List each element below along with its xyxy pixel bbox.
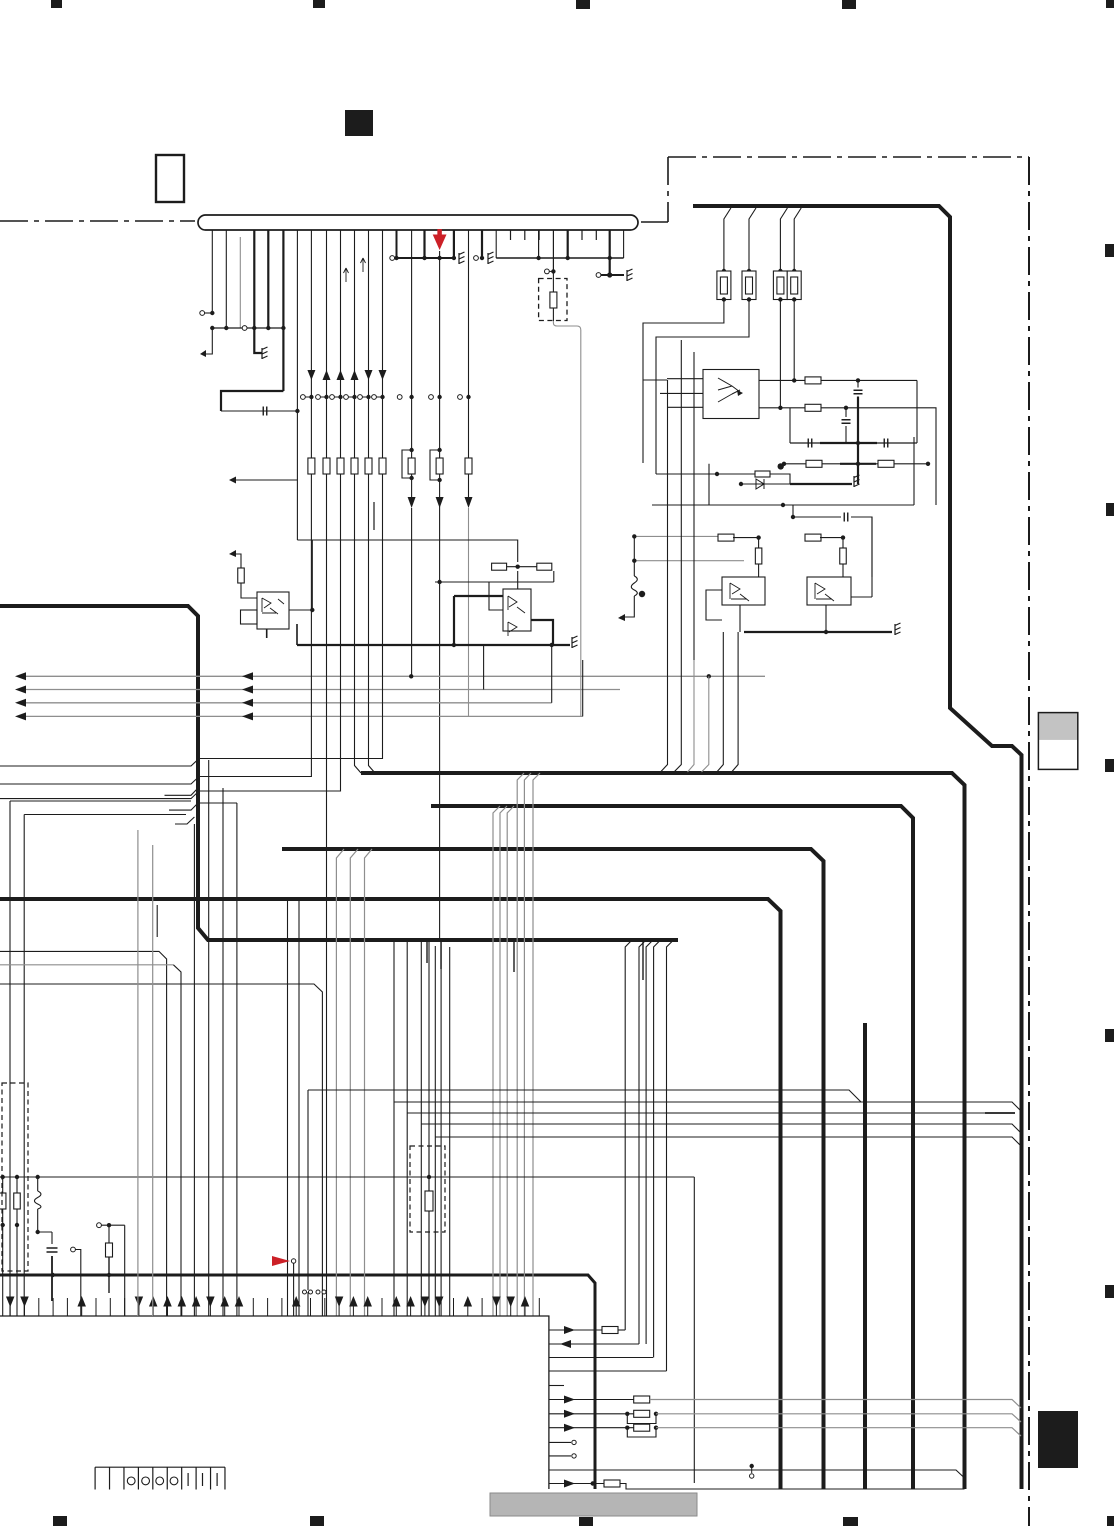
resistor box R1 [717,271,731,300]
arrow left end y716 [15,712,26,720]
wire coil stub [633,536,635,576]
resistor R x340 [337,458,344,474]
wire gray bus line y702 [26,702,552,704]
wire nested corner 2 [655,394,657,474]
wire pin x439 below arrow [439,251,441,582]
comb pin ticks [9,1298,11,1316]
thick bus C1 [361,773,965,1489]
wire rail y258 right [496,257,623,259]
wire line3 up [551,645,553,703]
wire tick left x368 [362,396,366,398]
wire thick L to Q2 [454,595,503,597]
row6 gray contd [650,1400,1021,1409]
junction gray line1 [409,674,413,678]
wire left feeder y984 [0,984,322,1316]
page boundary dash-dot right edge [1028,157,1030,1526]
wire pin bus to resistor (x340) [340,230,342,458]
row8 gray contd [656,1428,1021,1436]
wire pin 6 thick (x283) [282,230,284,391]
junction cap line [295,409,299,413]
resistor R7 [806,460,822,467]
junction x482 [480,256,484,260]
wire pin x496 [495,230,497,258]
thick bus D [863,1023,867,1489]
wire stair yB [394,1102,1021,1111]
wire cluster drop x667 [661,660,668,772]
Q1 internals [262,598,284,614]
row7 bracket [627,1414,656,1424]
wire R2 route [656,300,749,395]
wire U2 row1 [759,379,805,381]
wire stair x311 left [0,480,311,784]
wire x643 black stub [642,941,644,980]
wire elbow arrow bottom left cluster [620,602,634,617]
wire R18 down [16,1225,18,1316]
junction diode wire [739,482,743,486]
diode D1 [741,479,790,489]
wire R17 leads [2,1177,4,1193]
wire R4 route [793,300,795,381]
wire gray bus line y716 [26,715,583,717]
wire pin bus to resistor (x382) [382,230,384,458]
junction top R4 [792,269,796,273]
wire line2 up [483,645,485,690]
wire pin 1 (x212) [211,230,213,313]
wire elbow x80 [76,1250,81,1317]
registration mark bottom 4 [843,1517,858,1526]
junction pin14 [394,256,398,260]
wire stub y795 [165,788,199,795]
gray footer bar [490,1493,697,1516]
wire left elbow arrow from pin1 [201,328,212,354]
wire stub x553 circle [549,270,553,272]
row1 wire to riser [618,1329,625,1331]
wire R12 to Q4 [820,538,843,548]
capacitor C row2 [842,420,851,424]
resistor R x468 [465,458,472,474]
row12 step [620,1484,965,1490]
wire gray bus line y676 [26,675,765,677]
resistor R8 [878,460,894,467]
wire pin x624 [623,230,625,258]
row7 wire y1413 [549,1413,634,1415]
wire cluster drop x708 [702,676,709,772]
wire y517 cap [793,517,872,577]
wire x312 up to box top [311,540,313,610]
thick bus B left [0,606,678,940]
wire cluster drop x723 [717,632,724,772]
row3 wire y1357 [549,1357,653,1359]
row1 arrow [564,1326,575,1334]
junction y517 [791,515,795,519]
wire pin 2 (x226) [225,230,227,328]
wire left box 1 vert [9,801,11,1316]
wire drop x394 [393,940,395,1102]
small signal arrow up 2 [361,258,366,272]
junction L2 [36,1230,40,1234]
junction x424 [422,256,426,260]
white label box top left [156,155,184,202]
Q4 internals [815,583,834,601]
wire bracket x411 [402,450,412,478]
junction top R1 [722,269,726,273]
wire R14 down [241,583,257,598]
wire gray drop x507 [507,806,514,1316]
red flag [272,1256,290,1266]
wire Q3 left loop [706,590,722,620]
wire resistor down x368 [368,474,370,480]
wire x308 down [307,1090,309,1290]
opto box Q1 [257,592,289,629]
wire box right edge [913,437,915,505]
junction y505 [781,503,785,507]
wire caps rail y443 [790,442,917,444]
wire row2 contd [821,408,936,505]
arrow down on wire x382 [379,370,387,380]
wire black stub x441 [440,941,442,969]
resistor R15 [492,563,507,570]
thick rail y645 [297,644,570,646]
junction rail right dots [536,256,540,260]
wire left feeds cluster [656,464,741,505]
page boundary dash-dot left of connector [0,220,195,222]
wire line4 up [582,660,584,716]
wire R19 down [108,1257,110,1293]
row1 wire y1330 [549,1329,602,1331]
junction row2 x846 [844,406,848,410]
wire drop x194 [193,824,195,1316]
wire gray feeder 2 [634,560,744,562]
row8 resistor [634,1424,650,1431]
wire tick left x340 [334,396,338,398]
black label block bottom right [1038,1411,1078,1468]
node circle pair x553 [545,269,550,274]
registration mark top 2 [313,0,325,8]
wire gray drop x524 [524,773,531,1316]
ground symbol under rail [262,347,268,359]
node open circle pair x311 [301,395,306,400]
arrow left mid y716 [242,712,253,720]
wire gray drop x137 [137,830,139,1316]
node circle pair x99 [97,1223,102,1228]
resistor box R3 [773,271,787,300]
wire y517 left [792,505,794,517]
arrow left end y702 [15,699,26,707]
resistor R20 in dashed box [425,1191,433,1211]
wire Q1 bottom thick [267,624,297,645]
wire y1177 line [0,1176,694,1178]
junction rail y645 [452,643,456,647]
junction R3 end [778,406,782,410]
wire C5 drop x625 [625,940,632,1330]
wire Q4 bottom [825,605,827,632]
node open circle pair x326 [316,395,321,400]
row11 wire y1470 [549,1470,965,1478]
arrow up on wire x354 [351,370,359,380]
node open circle pair x354 [344,395,349,400]
row4 wire y1371 [549,1370,667,1372]
capacitor C3 y443 [808,439,812,448]
wire R1 route [643,300,724,372]
wire left feeder y951 [0,951,167,1316]
resistor R x382 [379,458,386,474]
bold node dot [778,463,784,469]
comb pin arrows [6,1297,15,1308]
row5 stub y1385 [549,1385,564,1387]
registration mark bottom 3 [579,1517,593,1526]
wire U2 left feeds [660,379,703,408]
wire pin bus to resistor (x368) [368,230,370,458]
wire left feeder y965 drop [173,965,181,1316]
wire stub x157 [156,905,158,937]
wire drop x407 [406,940,408,1113]
registration mark right 5 [1105,1285,1114,1298]
wire drop x299 [298,899,300,1316]
wire x411 contd [411,474,413,497]
wire R18 leads [16,1177,18,1193]
thick bus C3 [282,849,824,1489]
wire stair merge x354 [355,480,362,773]
wire tick left x311 [305,396,309,398]
registration mark top 1 [51,0,62,8]
wire stair x326 long [326,480,328,1316]
registration mark right 4 [1105,1029,1114,1042]
wire horizontal rail y328 [212,327,283,329]
arrow left mid y689 [242,686,253,694]
junction R12 [841,535,845,539]
ground x488 [488,252,494,264]
wire nested verticals group [668,340,695,660]
resistor R9 [755,471,770,477]
resistor R13 vertical [840,548,847,564]
wire pin 3 gray (x240) [239,237,241,328]
wire from bus A x780 [780,208,787,271]
junction y567 [516,565,520,569]
wire stair x340 left [0,480,341,799]
wire diode branch [741,474,790,484]
wire U2 row2 [759,407,805,409]
wire cluster drop x738 [732,632,739,772]
photo transistor box U2 [703,370,759,419]
wire resistor row y464 [784,463,928,465]
wire drop x407 low [406,1113,408,1316]
thick bus C4 [0,899,781,1489]
bottom left connector comb top [95,1466,225,1468]
junction feeders [632,534,636,538]
wire from bus A x749 [749,208,756,271]
row7 resistor [634,1410,650,1417]
node circle pair x411 [397,395,402,400]
wire nested corner 1 [643,371,667,463]
node open circle y1249 [71,1247,76,1252]
wire stair yC [407,1112,1012,1114]
junction C5 on bus E [51,1273,55,1277]
wire L2 bottom elbow [38,1209,52,1244]
wire stair yE [435,1137,1021,1146]
junction R4 end [792,378,796,382]
registration mark right 3 [1105,759,1114,772]
wire resistor down x340 [340,474,342,480]
wire from bus A x723 [724,208,731,271]
arrow left mid y676 [242,672,253,680]
ground cluster right y275 [601,274,624,276]
junction y582 [437,580,441,584]
wire pin x567 [567,230,569,258]
row8 wire y1427 [549,1427,634,1429]
wire pin x424 [423,230,425,258]
capacitor C row1 [854,390,863,394]
Q1 left tab [241,610,258,624]
registration mark right 2 [1106,503,1114,516]
resistor box R2 [742,271,756,300]
thick bus E [0,1275,595,1489]
wire Q3 collector up [758,564,760,577]
junction x453 [452,256,456,260]
junction x439 y258 [437,256,441,260]
wire drop x421 low [420,1124,422,1316]
small signal arrow up 1 [344,268,349,282]
wire R3 route [779,300,781,408]
node open circle pair x382 [372,395,377,400]
pin stubs short [510,230,512,240]
wire gray drop x364 [365,849,373,1316]
page boundary dash-dot vertical step [667,157,669,222]
wire stair yA [308,1090,861,1102]
dashed box around R [539,279,567,321]
wire Q2 left [489,582,503,610]
black label block top [345,110,373,136]
ground y484 [854,475,860,487]
wire pin x610 [609,230,611,275]
arrow left mid y702 [242,699,253,707]
wire gray drop x533 [533,773,540,1316]
resistor R17 [0,1193,6,1209]
resistor R x326 [323,458,330,474]
node flag circle [291,1259,295,1263]
wire tick left x382 [376,396,380,398]
registration mark top right corner [1106,0,1114,8]
junction y443 [856,441,860,445]
row8 bracket [627,1428,656,1437]
node open terminal at pin1 [200,311,205,316]
wire diode to ground thick [790,483,852,485]
wire flag down [293,1263,295,1316]
wire arrow elbow into R14 [230,554,241,568]
wire x237 inner [236,803,238,1316]
wire drop x435 [434,946,436,1316]
wire Q2 right thick [531,620,553,645]
row12 wire y1483 [549,1483,604,1485]
wire pin thick L (x396) [397,230,456,258]
resistor R10 [718,534,734,541]
row11 connector pair [750,1464,754,1468]
capacitor C in y411 line [263,407,267,416]
connector comb teeth [94,1467,96,1489]
resistor R x411 [408,458,415,474]
arrow left end y676 [15,672,26,680]
box top line y540 [297,540,517,562]
wire x224 inner [222,788,224,1316]
resistor R x354 [351,458,358,474]
wire stub y810 [169,803,237,810]
wire row1 contd [821,379,917,381]
bold node dot 2 [639,591,645,597]
wire terminal stub pin1 [205,312,213,314]
wire cluster drop x694 [688,660,695,772]
wire gray bus line y689 [26,689,620,691]
wire tick left x354 [348,396,352,398]
wire left box 1 [10,800,191,802]
wire x468 gray lower [468,508,470,716]
wire x694 box right [693,1177,695,1483]
coil L1 [631,576,637,596]
wire x211 inner [208,760,210,1316]
wire stub y824 [175,817,194,824]
resistor R x368 [365,458,372,474]
row6 resistor [634,1396,650,1403]
junction y1177 dots [1,1175,5,1179]
wire Q2 top [517,571,519,589]
lone vertical mark [373,502,375,530]
row9 wire y1442 [549,1441,571,1443]
wire thick rail y632 [744,631,892,633]
wire stair yC dash [985,1112,1015,1114]
registration mark top 4 [842,0,856,9]
capacitor C4 y517 [844,513,848,522]
wire drop x441b [440,940,442,1316]
row10 wire y1456 [549,1455,571,1457]
junction y632 [824,630,828,634]
wire pin 5 thick (x268) [267,230,269,328]
wire x308 oo [303,1290,307,1294]
page boundary dash-dot top [668,156,1029,158]
row2 wire y1344 [549,1343,639,1345]
resistor R12 [805,534,821,541]
junction row1 [856,378,860,382]
wire pin x468 long [468,230,470,497]
junction top R3 [778,269,782,273]
arrow up on wire x326 [323,370,331,380]
Q2 internals [508,596,525,636]
wire resistor down x354 [354,474,356,480]
wire Q4 right elbow [851,517,872,597]
wire black stub x514 [513,941,515,972]
arrow down on wire x311 [307,370,315,380]
node open circle pair x340 [330,395,335,400]
wire stair x382 left stub [0,480,383,766]
arrow down on wire x368 [365,370,373,380]
node open circle on rail [242,326,247,331]
arrow down solid x439 [436,497,444,508]
dashed box left [2,1083,28,1271]
wire resistor down x326 [326,474,328,480]
capacitor C5 vertical [47,1248,58,1252]
wire res row y567 [507,566,537,568]
wire capacitor line y411 [221,410,297,412]
wire left box 2 [24,814,186,816]
junction x439 y450 [437,448,441,452]
wire thick elbow capacitor branch [221,391,283,411]
resistor R6 row2 [805,404,821,411]
wire left feeder y965 gray [0,964,173,966]
resistor R18 [14,1193,21,1209]
junction bot R4 [792,297,796,301]
registration mark bottom 2 [310,1516,324,1526]
red service arrow [437,229,442,235]
wire drop x450 [449,947,451,1316]
arrow down solid x468 [465,497,473,508]
U2 internal transistor [718,378,740,402]
